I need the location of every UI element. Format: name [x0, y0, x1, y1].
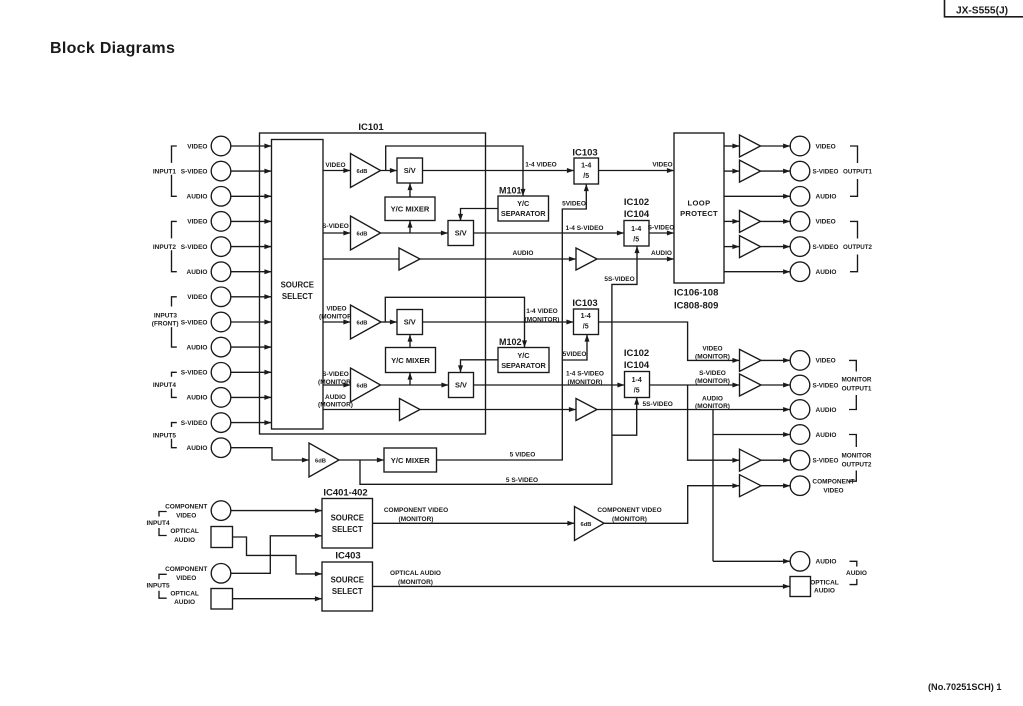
svg-text:Block Diagrams: Block Diagrams: [50, 40, 175, 57]
svg-text:1-4: 1-4: [581, 313, 591, 320]
bracket INPUT3 (FRONT): [172, 297, 177, 307]
wire Y/C mixer 1 to S/V 1: [409, 183, 411, 197]
jack INPUT AUDIO row9: [211, 337, 231, 357]
wire component video amp to output amp T8: [604, 486, 740, 524]
wire amp T8 to jack: [761, 485, 790, 487]
svg-text:(MONITOR): (MONITOR): [695, 378, 730, 385]
svg-text:COMPONENT: COMPONENT: [165, 566, 207, 573]
block SOURCE SELECT IC401-402: [322, 499, 373, 549]
jack OUTPUT AUDIO y561.3: [790, 552, 810, 572]
amp 6dB s-video A2: [351, 216, 381, 250]
svg-text:LOOP: LOOP: [687, 199, 710, 208]
bracket OUTPUT2: [850, 221, 858, 238]
wire source select to monitor s-video amp: [323, 384, 351, 386]
svg-text:/5: /5: [583, 173, 589, 180]
svg-text:AUDIO: AUDIO: [702, 395, 723, 402]
svg-text:1-4: 1-4: [632, 377, 642, 384]
block S/V 1: [397, 158, 423, 183]
svg-text:(MONITOR): (MONITOR): [695, 403, 730, 410]
jack INPUT S-VIDEO row2: [211, 161, 231, 181]
svg-text:/5: /5: [634, 387, 640, 394]
jack INPUT VIDEO row4: [211, 212, 231, 232]
jack INPUT AUDIO row6: [211, 262, 231, 282]
svg-text:S-VIDEO: S-VIDEO: [181, 370, 208, 377]
block S/V 3 monitor: [397, 310, 423, 335]
wire component video input5 to IC401-402: [231, 536, 322, 574]
bracket bottom INPUT5: [159, 574, 167, 579]
wire input row9 to SOURCE SELECT: [231, 346, 272, 348]
svg-text:S-VIDEO: S-VIDEO: [181, 420, 208, 427]
wire loop protect to amp T3: [724, 220, 740, 222]
wire amp A5 to Y/C mixer 3: [339, 459, 384, 461]
svg-text:6dB: 6dB: [357, 384, 368, 390]
wire 5VIDEO branch to monitor IC103: [562, 335, 587, 361]
block IC103 1-4/5: [574, 158, 599, 184]
wire input row8 to SOURCE SELECT: [231, 321, 272, 323]
amp monitor audio P3: [400, 399, 421, 421]
svg-text:COMPONENT VIDEO: COMPONENT VIDEO: [597, 507, 661, 514]
wire optical audio input5 to IC403: [233, 598, 323, 600]
block IC101 outline: [260, 133, 486, 434]
wire monitor video amp to S/V 3: [381, 321, 397, 323]
jack OUTPUT VIDEO y221.4: [790, 212, 810, 232]
svg-text:SOURCE: SOURCE: [281, 281, 314, 290]
svg-text:OUTPUT1: OUTPUT1: [843, 168, 872, 175]
jack INPUT AUDIO row13: [211, 438, 231, 458]
wire audio amp P2 to loop protect: [597, 258, 674, 260]
svg-text:Y/C: Y/C: [517, 199, 530, 208]
block IC102 IC104 1-4/5: [624, 221, 649, 247]
block Y/C SEPARATOR M102: [498, 348, 549, 373]
block monitor IC103 1-4/5: [574, 309, 599, 335]
wire source select monitor audio: [323, 409, 400, 411]
svg-text:INPUT2: INPUT2: [153, 244, 177, 251]
svg-text:(MONITOR): (MONITOR): [318, 402, 353, 409]
svg-text:AUDIO: AUDIO: [816, 194, 837, 201]
svg-text:1-4 S-VIDEO: 1-4 S-VIDEO: [566, 370, 604, 377]
svg-text:(MONITOR): (MONITOR): [399, 516, 434, 523]
jack OUTPUT S-VIDEO y385.0: [790, 375, 810, 395]
svg-text:S-VIDEO: S-VIDEO: [648, 225, 675, 232]
svg-text:VIDEO: VIDEO: [176, 575, 196, 582]
wire amp T2 to jack: [761, 170, 791, 172]
wire loop protect to output1 audio jack: [724, 195, 790, 197]
svg-text:AUDIO: AUDIO: [187, 445, 208, 452]
svg-text:1-4 S-VIDEO: 1-4 S-VIDEO: [566, 225, 604, 232]
jack INPUT VIDEO row1: [211, 136, 231, 156]
svg-text:IC104: IC104: [624, 209, 650, 220]
amp 6dB monitor video A3: [351, 305, 382, 339]
jack INPUT S-VIDEO row12: [211, 413, 231, 433]
wire IC102 IC104 to loop protect: [649, 232, 674, 234]
svg-text:AUDIO: AUDIO: [187, 344, 208, 351]
svg-text:5S-VIDEO: 5S-VIDEO: [643, 401, 673, 408]
svg-text:5 S-VIDEO: 5 S-VIDEO: [506, 477, 538, 484]
wire input row4 to SOURCE SELECT: [231, 220, 272, 222]
wire component video input4 to IC401-402: [231, 510, 322, 512]
svg-text:OUTPUT2: OUTPUT2: [842, 462, 872, 469]
svg-text:SOURCE: SOURCE: [331, 513, 364, 522]
bracket INPUT5: [172, 423, 177, 427]
wire S/V 2 to IC102 IC104: [474, 232, 625, 234]
svg-text:6dB: 6dB: [315, 459, 326, 465]
bracket INPUT2: [172, 221, 177, 238]
bracket AUDIO output: [850, 561, 857, 566]
wire Y/C mixer 2 to S/V 3: [409, 335, 411, 348]
jack OUTPUT AUDIO y409.5: [790, 400, 810, 420]
wire video amp to S/V 1: [381, 170, 398, 172]
svg-text:/5: /5: [583, 324, 589, 331]
block S/V 4 monitor: [449, 373, 474, 398]
svg-text:5VIDEO: 5VIDEO: [562, 201, 586, 208]
svg-text:/5: /5: [633, 236, 639, 243]
svg-text:MONITOR: MONITOR: [841, 376, 871, 383]
wire video tap to Y/C separator M101: [386, 146, 523, 196]
svg-text:S-VIDEO: S-VIDEO: [813, 458, 839, 465]
wire 5S-VIDEO from mixer junction to IC102 IC104: [360, 246, 637, 484]
bracket MONITOR OUTPUT2: [849, 435, 856, 448]
bracket OUTPUT1: [850, 146, 858, 163]
jack INPUT S-VIDEO row10: [211, 363, 231, 383]
jack OUTPUT AUDIO y196.3: [790, 187, 810, 207]
svg-text:IC401-402: IC401-402: [323, 488, 367, 499]
svg-text:S-VIDEO: S-VIDEO: [181, 168, 208, 175]
svg-text:AUDIO: AUDIO: [651, 250, 672, 257]
svg-text:OPTICAL: OPTICAL: [170, 528, 199, 535]
svg-text:VIDEO: VIDEO: [187, 294, 207, 301]
svg-text:VIDEO: VIDEO: [326, 305, 346, 312]
svg-text:S/V: S/V: [455, 229, 467, 238]
svg-text:OUTPUT1: OUTPUT1: [842, 386, 872, 393]
svg-text:VIDEO: VIDEO: [816, 219, 836, 226]
wire input row5 to SOURCE SELECT: [231, 246, 272, 248]
svg-text:(MONITOR): (MONITOR): [525, 317, 560, 324]
svg-text:(MONITOR): (MONITOR): [568, 379, 603, 386]
jack INPUT AUDIO row11: [211, 388, 231, 408]
amp component video T8: [740, 475, 762, 497]
wire monitor audio branch down: [712, 410, 714, 562]
wire s-video amp to S/V 2: [381, 232, 449, 234]
svg-text:M102: M102: [499, 337, 522, 347]
jack OUTPUT VIDEO y146.0: [790, 136, 810, 156]
bracket INPUT4: [172, 372, 177, 376]
wire amp T5 to jack: [761, 359, 790, 361]
amp 6dB video A1: [351, 154, 381, 188]
svg-text:1-4: 1-4: [581, 162, 591, 169]
bracket MONITOR OUTPUT1: [849, 360, 856, 371]
svg-text:IC102: IC102: [624, 348, 649, 359]
wire monitor audio branch to output2 audio jack: [713, 434, 790, 436]
wire monitor IC103 to video monitor amp: [599, 322, 740, 360]
svg-text:VIDEO: VIDEO: [816, 143, 836, 150]
svg-text:INPUT1: INPUT1: [153, 168, 177, 175]
wire Y/C separator M101 to S/V 2: [461, 209, 499, 222]
svg-text:(No.70251SCH) 1: (No.70251SCH) 1: [928, 682, 1002, 692]
jack OUTPUT S-VIDEO y171.1: [790, 161, 810, 181]
wire amp T1 to jack: [761, 145, 791, 147]
wire monitor audio to audio jack: [597, 409, 790, 411]
svg-text:VIDEO: VIDEO: [325, 162, 345, 169]
svg-text:AUDIO: AUDIO: [174, 537, 195, 544]
svg-text:6dB: 6dB: [581, 522, 592, 528]
jack INPUT VIDEO row7: [211, 287, 231, 307]
wire input row6 to SOURCE SELECT: [231, 271, 272, 273]
wire input row7 to SOURCE SELECT: [231, 296, 272, 298]
svg-text:(FRONT): (FRONT): [152, 321, 179, 328]
wire input row2 to SOURCE SELECT: [231, 170, 272, 172]
svg-text:5VIDEO: 5VIDEO: [563, 351, 587, 358]
wire monitor video tap to Y/C separator M102: [385, 297, 524, 347]
svg-text:VIDEO: VIDEO: [702, 345, 722, 352]
svg-text:S-VIDEO: S-VIDEO: [322, 223, 349, 230]
svg-text:INPUT4: INPUT4: [146, 520, 170, 527]
wire monitor s-video tap to Y/C mixer 2: [409, 373, 411, 386]
svg-text:AUDIO: AUDIO: [814, 587, 835, 594]
amp monitor s-video T6: [740, 374, 762, 396]
amp output T1: [740, 135, 761, 157]
wire source select to video amp: [323, 170, 351, 172]
block SOURCE SELECT IC403: [322, 562, 373, 611]
amp output T2: [740, 160, 761, 182]
wire source select audio: [323, 258, 399, 260]
wire branch to monitor output2 s-video amp: [688, 385, 740, 460]
wire monitor IC102 IC104 to s-video monitor amp: [650, 384, 740, 386]
jack OPTICAL AUDIO INPUT5 square: [211, 589, 233, 610]
wire amp T3 to jack: [761, 220, 791, 222]
jack INPUT S-VIDEO row8: [211, 312, 231, 332]
svg-text:Y/C MIXER: Y/C MIXER: [391, 356, 430, 365]
jack OPTICAL AUDIO output square: [790, 577, 811, 597]
wire amp T6 to jack: [761, 384, 790, 386]
wire monitor s-video amp to S/V 4: [381, 384, 449, 386]
svg-text:S/V: S/V: [404, 166, 416, 175]
wire S/V 3 to monitor IC103: [423, 321, 574, 323]
amp output T4: [740, 236, 761, 258]
amp monitor video T5: [740, 349, 762, 371]
svg-text:OPTICAL: OPTICAL: [810, 579, 839, 586]
wire input row11 to SOURCE SELECT: [231, 396, 272, 398]
amp audio P2: [576, 248, 597, 270]
block monitor IC102 IC104 1-4/5: [625, 372, 650, 398]
svg-text:1-4: 1-4: [631, 226, 641, 233]
svg-text:COMPONENT VIDEO: COMPONENT VIDEO: [384, 507, 448, 514]
svg-text:SOURCE: SOURCE: [331, 576, 364, 585]
jack OUTPUT COMPONENT VIDEO y485.7: [790, 476, 810, 496]
svg-text:IC106-108: IC106-108: [674, 287, 718, 298]
svg-text:6dB: 6dB: [357, 321, 368, 327]
block S/V 2: [448, 221, 474, 246]
amp output T3: [740, 210, 761, 232]
svg-text:INPUT3: INPUT3: [154, 312, 178, 319]
wire IC403 optical audio monitor to optical jack: [373, 585, 791, 587]
svg-text:1-4 VIDEO: 1-4 VIDEO: [526, 308, 557, 315]
block SOURCE SELECT IC101: [272, 140, 324, 430]
jack INPUT S-VIDEO row5: [211, 237, 231, 257]
svg-text:INPUT4: INPUT4: [153, 382, 177, 389]
wire loop protect to amp T2: [724, 170, 740, 172]
svg-text:VIDEO: VIDEO: [652, 162, 672, 169]
amp 6dB monitor s-video A4: [351, 368, 381, 402]
svg-text:AUDIO: AUDIO: [816, 269, 837, 276]
wire input row1 to SOURCE SELECT: [231, 145, 272, 147]
svg-text:AUDIO: AUDIO: [846, 570, 867, 577]
svg-text:5 VIDEO: 5 VIDEO: [510, 452, 536, 459]
block LOOP PROTECT: [674, 133, 724, 283]
svg-text:S-VIDEO: S-VIDEO: [699, 370, 726, 377]
wire 5S-VIDEO branch to monitor IC102 IC104: [612, 398, 637, 436]
wire amp T4 to jack: [761, 246, 791, 248]
svg-text:AUDIO: AUDIO: [187, 269, 208, 276]
wire s-video tap to Y/C mixer 1: [409, 221, 411, 234]
wire loop protect to amp T4: [724, 246, 740, 248]
svg-text:(MONITOR): (MONITOR): [318, 379, 353, 386]
svg-text:IC103: IC103: [572, 298, 597, 309]
block Y/C SEPARATOR M101: [498, 196, 549, 221]
svg-text:Y/C: Y/C: [517, 351, 530, 360]
svg-text:6dB: 6dB: [357, 232, 368, 238]
jack OUTPUT AUDIO y271.7: [790, 262, 810, 282]
svg-text:JX-S555(J): JX-S555(J): [956, 5, 1008, 16]
svg-text:(MONITOR): (MONITOR): [612, 516, 647, 523]
svg-text:S/V: S/V: [404, 318, 416, 327]
jack OUTPUT VIDEO y360.4: [790, 351, 810, 371]
amp monitor output2 s-video T7: [740, 449, 762, 471]
wire 5VIDEO from Y/C mixer 3 to IC103: [437, 184, 587, 460]
svg-text:IC103: IC103: [572, 147, 597, 158]
svg-text:1-4 VIDEO: 1-4 VIDEO: [525, 162, 556, 169]
svg-text:SELECT: SELECT: [332, 525, 363, 534]
svg-text:SEPARATOR: SEPARATOR: [501, 209, 546, 218]
wire optical audio input4 to IC403: [233, 537, 323, 574]
wire S/V 4 to monitor IC102 IC104: [474, 384, 625, 386]
svg-text:AUDIO: AUDIO: [187, 395, 208, 402]
wire amp T7 to jack: [761, 459, 790, 461]
svg-text:IC403: IC403: [335, 551, 360, 562]
svg-text:IC808-809: IC808-809: [674, 300, 718, 311]
svg-text:AUDIO: AUDIO: [816, 559, 837, 566]
svg-text:Y/C MIXER: Y/C MIXER: [391, 456, 430, 465]
svg-text:VIDEO: VIDEO: [816, 358, 836, 365]
svg-text:SELECT: SELECT: [332, 587, 363, 596]
bracket INPUT1: [172, 146, 177, 163]
svg-text:OPTICAL: OPTICAL: [170, 590, 199, 597]
amp audio P1: [399, 248, 420, 270]
svg-text:Y/C MIXER: Y/C MIXER: [391, 205, 430, 214]
amp 6dB input5 audio A5: [309, 443, 339, 477]
svg-text:VIDEO: VIDEO: [187, 143, 207, 150]
jack OPTICAL AUDIO INPUT4 square: [211, 527, 233, 548]
svg-text:MONITOR: MONITOR: [841, 452, 871, 459]
svg-text:VIDEO: VIDEO: [187, 219, 207, 226]
svg-text:S-VIDEO: S-VIDEO: [181, 244, 208, 251]
amp monitor audio P4: [576, 399, 597, 421]
wire INPUT5 AUDIO to amp: [231, 448, 309, 460]
svg-text:S-VIDEO: S-VIDEO: [181, 319, 208, 326]
wire S/V 1 to IC103: [423, 170, 575, 172]
svg-text:S-VIDEO: S-VIDEO: [813, 168, 839, 175]
block Y/C MIXER 3: [384, 448, 437, 472]
svg-text:6dB: 6dB: [357, 169, 368, 175]
wire monitor audio branch to bottom audio jack: [713, 560, 790, 562]
wire audio amp P1 to P2: [420, 258, 576, 260]
svg-text:COMPONENT: COMPONENT: [165, 504, 207, 511]
svg-text:IC104: IC104: [624, 360, 650, 371]
wire Y/C separator M102 to S/V 4: [461, 360, 499, 373]
svg-text:COMPONENT: COMPONENT: [812, 478, 854, 485]
wire source select to s-video amp: [323, 232, 351, 234]
svg-text:INPUT5: INPUT5: [153, 433, 177, 440]
wire input row12 to SOURCE SELECT: [231, 422, 272, 424]
svg-text:SEPARATOR: SEPARATOR: [501, 361, 546, 370]
wire monitor audio amp P3 to P4: [420, 409, 576, 411]
svg-text:OPTICAL AUDIO: OPTICAL AUDIO: [390, 570, 441, 577]
svg-text:PROTECT: PROTECT: [680, 209, 718, 218]
svg-text:AUDIO: AUDIO: [513, 250, 534, 257]
amp 6dB component video A6: [575, 507, 605, 541]
jack OUTPUT S-VIDEO y246.6: [790, 237, 810, 257]
svg-text:AUDIO: AUDIO: [174, 599, 195, 606]
jack COMPONENT VIDEO INPUT5: [211, 564, 231, 584]
svg-text:M101: M101: [499, 186, 522, 196]
jack INPUT AUDIO row3: [211, 187, 231, 207]
svg-text:AUDIO: AUDIO: [187, 194, 208, 201]
svg-text:OUTPUT2: OUTPUT2: [843, 244, 872, 251]
svg-text:VIDEO: VIDEO: [823, 487, 843, 494]
svg-text:VIDEO: VIDEO: [176, 512, 196, 519]
svg-text:AUDIO: AUDIO: [325, 394, 346, 401]
svg-text:IC101: IC101: [358, 122, 384, 133]
svg-text:(MONITOR): (MONITOR): [319, 313, 354, 320]
wire input row10 to SOURCE SELECT: [231, 371, 272, 373]
svg-text:5S-VIDEO: 5S-VIDEO: [604, 276, 634, 283]
block Y/C MIXER 2 monitor: [386, 348, 436, 373]
bracket bottom INPUT4: [159, 512, 167, 517]
svg-text:IC102: IC102: [624, 197, 649, 208]
wire input row3 to SOURCE SELECT: [231, 195, 272, 197]
block Y/C MIXER 1: [385, 197, 435, 221]
wire loop protect to output2 audio jack: [724, 271, 790, 273]
wire source select to monitor video amp: [323, 321, 351, 323]
wire loop protect to amp T1: [724, 145, 740, 147]
svg-text:(MONITOR): (MONITOR): [398, 579, 433, 586]
svg-text:AUDIO: AUDIO: [816, 407, 837, 414]
jack OUTPUT S-VIDEO y460.2: [790, 450, 810, 470]
jack OUTPUT AUDIO y434.5: [790, 425, 810, 445]
model number box JX-S555(J): [945, 0, 1023, 17]
jack COMPONENT VIDEO INPUT4: [211, 501, 231, 521]
svg-text:S-VIDEO: S-VIDEO: [813, 382, 839, 389]
wire IC103 to loop protect: [599, 170, 675, 172]
svg-text:(MONITOR): (MONITOR): [695, 353, 730, 360]
svg-text:S-VIDEO: S-VIDEO: [322, 371, 349, 378]
wire IC401-402 to component video amp: [373, 522, 575, 524]
svg-text:INPUT5: INPUT5: [146, 583, 170, 590]
svg-text:AUDIO: AUDIO: [816, 432, 837, 439]
svg-text:SELECT: SELECT: [282, 292, 313, 301]
svg-text:S/V: S/V: [455, 381, 467, 390]
svg-text:S-VIDEO: S-VIDEO: [813, 244, 839, 251]
